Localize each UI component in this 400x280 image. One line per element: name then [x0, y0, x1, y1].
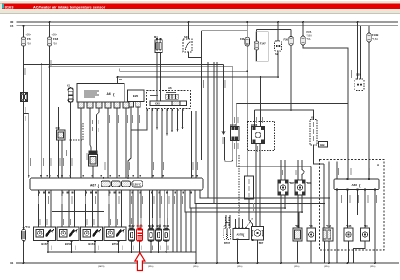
- svg-text:X30: X30: [56, 127, 61, 130]
- svg-text:B162: B162: [129, 225, 136, 228]
- svg-text:M4: M4: [154, 35, 158, 39]
- svg-text:B168: B168: [251, 123, 258, 127]
- svg-text:B57: B57: [259, 242, 264, 245]
- svg-text:A66: A66: [352, 183, 358, 187]
- svg-text:S2: S2: [275, 52, 279, 56]
- svg-text:8163: 8163: [5, 4, 15, 9]
- svg-text:XXX: XXX: [155, 103, 160, 106]
- svg-text:B63: B63: [156, 225, 161, 228]
- svg-text:(2Px): (2Px): [148, 266, 154, 268]
- svg-text:(2Px): (2Px): [294, 266, 300, 268]
- svg-text:S30: S30: [356, 73, 361, 77]
- svg-text:(2Px): (2Px): [370, 266, 376, 268]
- svg-text:S24: S24: [184, 35, 189, 39]
- svg-text:*B8: *B8: [295, 225, 300, 228]
- svg-text:(2Px): (2Px): [237, 266, 243, 268]
- svg-text:B754: B754: [112, 242, 119, 246]
- svg-text:B160: B160: [163, 225, 170, 228]
- svg-text:A6: A6: [168, 86, 172, 90]
- svg-text:B163: B163: [137, 225, 144, 228]
- svg-text:*738: *738: [326, 225, 332, 228]
- svg-text:(3470): (3470): [98, 265, 105, 268]
- svg-text:B157: B157: [41, 242, 48, 246]
- svg-text:B154: B154: [88, 242, 95, 246]
- svg-text:(2Px): (2Px): [193, 266, 199, 268]
- svg-text:F7A: F7A: [307, 30, 312, 34]
- svg-text:F6: F6: [27, 37, 31, 41]
- svg-text:*43B: *43B: [346, 225, 352, 228]
- svg-text:*T11: *T11: [25, 226, 31, 229]
- svg-text:*7,5A: *7,5A: [372, 38, 378, 41]
- svg-text:B767: B767: [224, 242, 231, 245]
- svg-text:31: 31: [10, 261, 14, 265]
- svg-text:B169: B169: [148, 225, 155, 228]
- svg-text:B152: B152: [65, 242, 72, 246]
- svg-text:E20: E20: [133, 94, 139, 98]
- svg-text:<30>: <30>: [26, 33, 32, 36]
- svg-text:B164: B164: [230, 123, 237, 127]
- svg-text:F26: F26: [284, 38, 289, 42]
- svg-text:F147: F147: [260, 42, 266, 46]
- svg-text:F28: F28: [240, 37, 245, 41]
- svg-text:AC/heater air intake temperatu: AC/heater air intake temperature sensor: [33, 5, 106, 9]
- svg-text:F14B: F14B: [372, 33, 378, 37]
- svg-text:A6: A6: [107, 92, 111, 96]
- svg-text:F18: F18: [53, 37, 59, 41]
- svg-text:(2Px): (2Px): [324, 266, 330, 268]
- svg-text:*2A: *2A: [27, 43, 31, 46]
- svg-text:15: 15: [10, 24, 14, 28]
- svg-text:*5A: *5A: [307, 38, 311, 41]
- svg-text:120°C: 120°C: [133, 183, 142, 187]
- svg-text:<30>: <30>: [52, 33, 58, 36]
- svg-text:*B67: *B67: [289, 182, 295, 185]
- svg-text:A67: A67: [90, 183, 96, 187]
- svg-text:*2A: *2A: [53, 43, 57, 46]
- svg-text:*B66: *B66: [306, 182, 312, 185]
